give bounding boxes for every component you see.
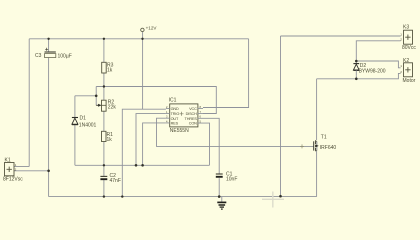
svg-text:80Vcc: 80Vcc bbox=[402, 45, 416, 51]
wire RES pin bbox=[143, 123, 166, 165]
svg-text:+12V: +12V bbox=[146, 26, 158, 31]
wire T1 source leg bbox=[316, 151, 318, 197]
wire R1 bottom to C2 bbox=[103, 142, 105, 177]
svg-text:GND: GND bbox=[171, 107, 179, 111]
wire D1 top link bbox=[75, 95, 96, 97]
resistor R1 bbox=[102, 131, 114, 143]
wire T1 drain leg bbox=[316, 79, 318, 140]
svg-text:K1: K1 bbox=[5, 158, 11, 164]
svg-text:DISCH: DISCH bbox=[186, 112, 198, 116]
potentiometer R2 bbox=[96, 100, 116, 112]
resistor R3 bbox=[102, 62, 114, 73]
wire bottom ground rail bbox=[49, 196, 317, 198]
node junction dots bbox=[47, 38, 357, 198]
svg-text:1k: 1k bbox=[107, 137, 113, 143]
wire GND pin row bbox=[122, 109, 166, 196]
wire drain net to K2 bbox=[317, 73, 401, 78]
svg-text:K2: K2 bbox=[403, 58, 409, 64]
node R3 R2 disch bbox=[103, 85, 105, 87]
diode D1 bbox=[72, 116, 97, 129]
svg-text:10nF: 10nF bbox=[226, 177, 237, 183]
svg-text:Motor: Motor bbox=[403, 78, 416, 84]
wire VCC right leg bbox=[203, 39, 249, 108]
svg-text:T1: T1 bbox=[321, 134, 327, 140]
node K1 C3 bbox=[47, 170, 50, 173]
wire K3 rail bbox=[281, 35, 401, 37]
capacitor C2 bbox=[100, 173, 121, 184]
wire C1 bottom bbox=[218, 178, 220, 196]
node RES tie bbox=[141, 164, 144, 167]
wire OUT pin to gate bbox=[157, 118, 314, 146]
svg-text:TRIG: TRIG bbox=[171, 112, 180, 116]
ground bbox=[217, 197, 226, 210]
wire K1 pin2 bbox=[14, 170, 49, 172]
node C2 gnd bbox=[103, 195, 105, 197]
svg-text:1N4001: 1N4001 bbox=[79, 123, 97, 129]
wire TRIG pin bbox=[136, 114, 166, 166]
svg-text:CON: CON bbox=[189, 122, 197, 126]
wire DISCH net bbox=[96, 87, 216, 114]
wire top +12V rail bbox=[29, 38, 248, 40]
connector K2 bbox=[400, 58, 415, 84]
ghost cursor cross bbox=[262, 192, 284, 208]
svg-text:IC1: IC1 bbox=[169, 98, 177, 104]
svg-text:THRES: THRES bbox=[185, 117, 198, 121]
wire D2 vertical bbox=[355, 61, 357, 79]
node R3 top rail bbox=[103, 38, 105, 40]
wire K1 pin1 bbox=[14, 166, 29, 168]
svg-text:RES: RES bbox=[171, 122, 179, 126]
wire C3 top lead bbox=[48, 39, 50, 52]
node +12V tap bbox=[141, 38, 143, 40]
op-amp IC1 NE555 bbox=[166, 98, 203, 135]
connector K3 bbox=[400, 25, 416, 51]
svg-text:K3: K3 bbox=[403, 25, 409, 31]
capacitor C3 bbox=[35, 48, 72, 60]
node wiper D1 bbox=[95, 95, 98, 98]
wire R3 leads bbox=[103, 39, 105, 100]
node D2 top bbox=[355, 60, 358, 63]
svg-text:IRF640: IRF640 bbox=[320, 145, 337, 151]
node C1 gnd bbox=[218, 195, 221, 198]
svg-text:100µF: 100µF bbox=[58, 53, 72, 59]
wire D2 top net to K2 pin1 bbox=[356, 61, 400, 68]
wire K3 leg down bbox=[280, 36, 282, 196]
node gnd pin rail bbox=[121, 195, 123, 197]
wire +12V tap down bbox=[142, 32, 144, 109]
svg-text:C3: C3 bbox=[35, 53, 42, 59]
svg-text:OUT: OUT bbox=[171, 117, 179, 121]
svg-text:47nF: 47nF bbox=[110, 178, 121, 184]
wire D1 vertical bbox=[74, 96, 76, 166]
wire R2 to R1 bbox=[103, 111, 105, 131]
wire THRES to C1 bbox=[203, 118, 219, 173]
wire K3 pin2 to D2 bbox=[356, 41, 400, 61]
origin cross T1 bbox=[300, 144, 304, 148]
connector K1 bbox=[3, 158, 23, 183]
node D2 bottom bbox=[355, 78, 358, 81]
node TRIG tie bbox=[135, 164, 138, 167]
origin cross bbox=[180, 112, 184, 116]
wire wiper branch bbox=[95, 87, 97, 106]
pin stubs bbox=[166, 108, 203, 123]
svg-text:8F12Vsc: 8F12Vsc bbox=[3, 177, 23, 183]
svg-text:NE555N: NE555N bbox=[170, 128, 189, 134]
diode D2 bbox=[353, 63, 385, 75]
svg-text:BYW98-200: BYW98-200 bbox=[359, 68, 386, 74]
wire C2 bottom bbox=[103, 180, 105, 197]
wire CON pin leg bbox=[203, 123, 210, 165]
svg-text:22k: 22k bbox=[108, 105, 117, 111]
wire left rail bbox=[28, 39, 30, 167]
svg-text:1k: 1k bbox=[107, 68, 113, 74]
node C3 top rail bbox=[47, 38, 49, 40]
wire timing node horizontal bbox=[75, 164, 210, 166]
node K3 leg gnd bbox=[279, 195, 282, 198]
node R1 C2 bbox=[103, 164, 105, 166]
wire C3 bottom lead bbox=[48, 58, 50, 197]
capacitor C1 bbox=[216, 171, 238, 182]
svg-text:VCC: VCC bbox=[189, 107, 197, 111]
power +12V symbol bbox=[141, 26, 158, 32]
transistor T1 IRF640 bbox=[300, 134, 336, 151]
svg-text:D1: D1 bbox=[80, 116, 87, 122]
